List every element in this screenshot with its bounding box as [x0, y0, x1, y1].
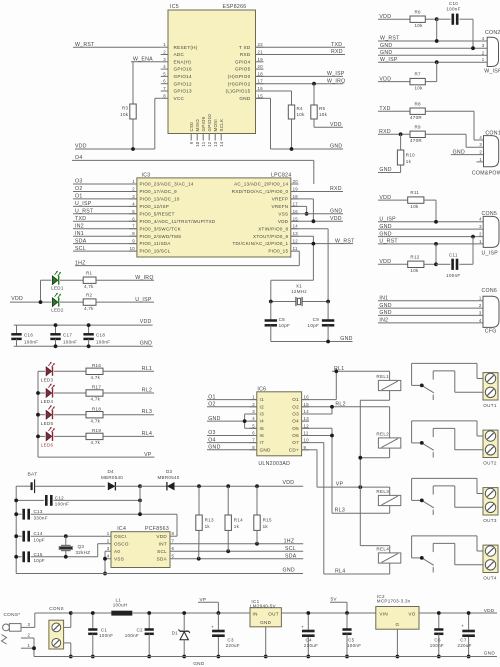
svg-text:R7: R7 [415, 72, 422, 77]
svg-text:GND: GND [380, 43, 392, 49]
svg-text:VDD: VDD [156, 534, 167, 539]
wire 1HZ from IC4 INT [170, 538, 303, 544]
junction CONS top on VP line [69, 611, 73, 615]
svg-text:GPIO12: GPIO12 [174, 81, 193, 86]
junction C1 bottom [91, 655, 95, 659]
svg-text:CONS: CONS [49, 606, 64, 611]
svg-text:100nF: 100nF [99, 633, 113, 638]
svg-text:4: 4 [479, 217, 482, 222]
svg-text:PIO0_17/ADC_9: PIO0_17/ADC_9 [140, 189, 178, 194]
svg-text:Q3: Q3 [78, 544, 85, 549]
svg-text:VDD: VDD [379, 76, 391, 82]
svg-text:O4: O4 [75, 155, 83, 161]
wire W_RST to IC5 pin 1 [73, 46, 161, 48]
svg-text:R2: R2 [86, 292, 93, 297]
svg-text:R6: R6 [415, 9, 422, 14]
svg-text:R18: R18 [92, 406, 101, 411]
svg-text:SCLK: SCLK [219, 119, 224, 132]
svg-text:11: 11 [293, 246, 298, 251]
node GND label bottom right [484, 651, 496, 656]
resistor R10 1k [378, 134, 415, 172]
junction crystal right node [326, 300, 330, 304]
LED LED5 red [41, 405, 55, 426]
svg-text:ADC: ADC [174, 52, 185, 57]
wire CON1 pin 1 stub [477, 161, 484, 163]
svg-text:PIO0_2/SWD/TMS: PIO0_2/SWD/TMS [140, 234, 182, 239]
capacitor C10 100nF [437, 1, 473, 48]
svg-text:VSS: VSS [278, 211, 288, 216]
svg-text:PIO0_5/RESET: PIO0_5/RESET [140, 211, 175, 216]
junction jack pin1 on GND riser [32, 646, 36, 650]
svg-text:R4: R4 [297, 106, 304, 111]
svg-text:+: + [301, 624, 304, 629]
wire REL1 coil top from RL1 [389, 371, 391, 380]
resistor R6 10k [410, 9, 437, 28]
svg-text:I2: I2 [260, 404, 265, 409]
junction XTOUT crossing W_RST [312, 242, 316, 246]
wire IC6 pin 12 tie to RL3 [302, 428, 332, 435]
wire GND to CON6 pin 2 [378, 303, 483, 309]
IC4 left pin labels [114, 534, 129, 562]
svg-text:GND: GND [283, 568, 295, 574]
svg-text:O2: O2 [292, 404, 299, 409]
IC3 left pin numbers and stubs [129, 179, 137, 251]
svg-text:RXD: RXD [330, 186, 342, 192]
svg-text:RL3: RL3 [142, 409, 152, 415]
svg-text:CS0: CS0 [189, 122, 194, 132]
svg-text:15: 15 [304, 402, 310, 407]
svg-text:2: 2 [482, 50, 485, 55]
svg-text:3: 3 [482, 43, 485, 48]
node W_RST label [75, 42, 95, 48]
svg-text:RL3: RL3 [335, 508, 345, 514]
svg-text:ESP8266: ESP8266 [222, 4, 246, 10]
svg-text:2: 2 [479, 232, 482, 237]
svg-text:4,7k: 4,7k [91, 397, 101, 402]
junction C5 bottom [345, 655, 349, 659]
resistor R19 4,7k [54, 428, 154, 445]
regulator IC2 MCP1703-3.3v [376, 594, 497, 657]
svg-text:REL4: REL4 [376, 546, 389, 551]
svg-text:10: 10 [304, 438, 310, 443]
junction RTC supply node [138, 484, 142, 488]
wire GND to CON2 pin 3 [378, 43, 487, 49]
svg-text:4: 4 [107, 554, 110, 559]
svg-text:C15: C15 [34, 552, 43, 557]
svg-text:SDA: SDA [157, 556, 168, 561]
svg-text:MBR0540: MBR0540 [158, 475, 180, 480]
LED LED4 red [41, 384, 55, 405]
inductor L1 100uH [111, 598, 250, 616]
wire GND rail for decoupling caps [14, 340, 153, 346]
svg-text:100uH: 100uH [113, 603, 128, 608]
svg-text:IN1: IN1 [75, 231, 84, 237]
screw terminal OUT2 [483, 430, 498, 466]
svg-text:RL2: RL2 [335, 401, 345, 407]
svg-text:C7: C7 [460, 637, 467, 642]
capacitor C17 100nF [50, 325, 77, 346]
svg-text:2: 2 [479, 303, 482, 308]
svg-text:17: 17 [258, 79, 264, 84]
wire O2 to IC6 pin 2 [207, 402, 257, 408]
junction VDD at LED riser [39, 300, 43, 304]
wire GND to CON1 pin 2 [451, 149, 484, 155]
svg-text:12: 12 [207, 141, 212, 147]
svg-text:220uF: 220uF [304, 643, 318, 648]
svg-text:VREFP: VREFP [272, 197, 289, 202]
LED LED3 red [41, 362, 55, 383]
svg-text:PIO0_10/SCL: PIO0_10/SCL [140, 249, 171, 254]
diode D1 suppressor [172, 613, 190, 657]
svg-text:(H)GPIO0: (H)GPIO0 [228, 74, 251, 79]
svg-text:XTOUT/PIO0_9: XTOUT/PIO0_9 [253, 234, 288, 239]
svg-text:6: 6 [252, 431, 255, 436]
svg-text:IN2: IN2 [379, 318, 388, 324]
junction R4 bottom on GND [290, 147, 294, 151]
wire VP net from IC6 pin 9 CD+ [302, 450, 390, 488]
capacitor C4 220uF electrolytic [301, 613, 318, 657]
svg-text:C5: C5 [348, 637, 355, 642]
junction C15 left on GND rail [14, 555, 18, 559]
svg-text:I3: I3 [260, 412, 265, 417]
svg-text:12: 12 [304, 423, 310, 428]
node CONS* label and DC jack [2, 612, 35, 648]
diode D3 MBR0540 [140, 469, 199, 491]
svg-text:MBR0540: MBR0540 [101, 475, 123, 480]
IC6 right pin labels [289, 397, 299, 452]
junction VREFN on VSS line [305, 212, 309, 216]
svg-text:OUT4: OUT4 [483, 576, 497, 581]
svg-text:100nF: 100nF [446, 273, 460, 278]
svg-text:7: 7 [172, 539, 175, 544]
svg-text:1: 1 [479, 157, 482, 162]
svg-text:U_ISP: U_ISP [482, 251, 499, 257]
svg-text:10pF: 10pF [34, 537, 45, 542]
svg-text:VDD: VDD [140, 319, 152, 325]
svg-text:IN2: IN2 [75, 223, 84, 229]
svg-text:3: 3 [132, 194, 135, 199]
junction RXD at R10 [399, 132, 403, 136]
wire VP branch to REL4 coil top [360, 487, 389, 553]
svg-text:O7: O7 [292, 440, 299, 445]
svg-text:19: 19 [258, 57, 264, 62]
svg-text:13: 13 [304, 416, 310, 421]
wire GND to CON6 pin 3 [378, 310, 483, 316]
junction C10 on GND [471, 46, 475, 50]
crystal X1 12MHz [271, 283, 328, 306]
wire XTIN from IC3 pin 14 to crystal [291, 229, 328, 302]
svg-text:2: 2 [28, 633, 31, 638]
junction C6 bottom [437, 655, 441, 659]
driver IC6 ULN2003AD body [257, 386, 302, 467]
svg-text:PIO0_23/ADC_3/AC_14: PIO0_23/ADC_3/AC_14 [140, 182, 194, 187]
junction R6 on W_RST [435, 39, 439, 43]
svg-text:VDD: VDD [75, 144, 87, 150]
svg-text:PIO0_13/ADC_10: PIO0_13/ADC_10 [140, 197, 180, 202]
resistor R8 470R [410, 101, 484, 140]
svg-text:1: 1 [252, 395, 255, 400]
svg-text:1: 1 [479, 239, 482, 244]
svg-text:C16: C16 [24, 333, 33, 338]
wire CONS top screw to VP line [64, 613, 71, 627]
svg-text:VDD: VDD [278, 219, 289, 224]
wire W_RST from IC3 pin 12 [291, 238, 355, 244]
wire GND from IC5 pin 15 [256, 98, 344, 149]
svg-text:14: 14 [293, 224, 299, 229]
svg-text:A0: A0 [114, 549, 120, 554]
IC4 pin numbers [107, 531, 175, 559]
svg-text:VDD: VDD [330, 216, 342, 222]
junction C18 top [87, 323, 91, 327]
svg-text:MOSI: MOSI [213, 119, 218, 131]
svg-text:OUT1: OUT1 [483, 403, 497, 408]
junction W_IRQ at R5 [312, 82, 316, 86]
junction CONS bottom on GND [69, 655, 73, 659]
wire VDD rail for decoupling caps [14, 319, 153, 325]
junction pin12 on RL3 [330, 434, 334, 438]
svg-text:VO: VO [408, 612, 415, 617]
svg-text:GND: GND [330, 144, 342, 150]
svg-text:7: 7 [163, 86, 166, 91]
svg-text:VDD: VDD [283, 480, 295, 486]
svg-text:R13: R13 [205, 517, 214, 522]
wire GND to CON2 pin 2 [378, 50, 487, 56]
svg-text:10k: 10k [319, 112, 328, 117]
svg-text:6: 6 [132, 216, 135, 221]
svg-text:C13: C13 [34, 509, 43, 514]
junction pin14 on RL2 [330, 405, 334, 409]
wire battery GND left rail [15, 486, 17, 573]
node W_ENA label [133, 57, 153, 63]
wire crystal GND line [271, 336, 353, 342]
svg-text:VIN: VIN [379, 612, 388, 617]
svg-text:O1: O1 [208, 394, 216, 400]
svg-text:3: 3 [163, 57, 166, 62]
svg-text:18: 18 [258, 71, 264, 76]
resistor R18 4,7k [54, 406, 154, 423]
svg-text:18: 18 [293, 194, 299, 199]
svg-text:VP: VP [200, 597, 207, 602]
svg-text:OUT2: OUT2 [483, 461, 497, 466]
svg-text:RL4: RL4 [335, 569, 345, 575]
svg-text:1k: 1k [406, 159, 412, 164]
svg-text:LED3: LED3 [41, 378, 54, 383]
svg-text:VDD: VDD [379, 259, 391, 265]
relay coil REL3 [376, 489, 400, 506]
wire VDD to R6 [378, 14, 410, 20]
svg-text:GND: GND [380, 50, 392, 56]
svg-text:AC_13/ADC_2/PIO0_14: AC_13/ADC_2/PIO0_14 [234, 182, 288, 187]
svg-text:IN1: IN1 [379, 296, 388, 302]
svg-text:O6: O6 [292, 433, 299, 438]
svg-text:TXD: TXD [75, 216, 86, 222]
svg-text:2: 2 [132, 187, 135, 192]
svg-text:CD+: CD+ [289, 447, 299, 452]
svg-text:11: 11 [201, 141, 206, 146]
wire RL4 net from IC6 pin 10 to REL4 coil [302, 443, 390, 575]
connector CON1 COM&POW [472, 130, 500, 176]
svg-text:VCC: VCC [174, 96, 185, 101]
node VDD label below R5 [330, 122, 342, 128]
svg-text:I1: I1 [260, 397, 265, 402]
screw terminal OUT1 [483, 373, 498, 409]
svg-text:GND: GND [379, 303, 391, 309]
svg-text:LM2940-5V: LM2940-5V [250, 604, 276, 609]
svg-text:W_ENA: W_ENA [133, 57, 153, 63]
svg-text:BAT: BAT [28, 472, 38, 478]
svg-text:REL3: REL3 [376, 489, 389, 494]
svg-text:R8: R8 [415, 101, 422, 106]
svg-text:PIO0_12/ISP: PIO0_12/ISP [140, 204, 170, 209]
svg-text:6: 6 [172, 546, 175, 551]
svg-text:OSCI: OSCI [114, 534, 126, 539]
svg-text:LED6: LED6 [41, 443, 54, 448]
junction D1 bottom [182, 655, 186, 659]
svg-text:R9: R9 [415, 124, 422, 129]
wire U_RST to CON5 pin 1 [378, 239, 483, 245]
resistor R2 4,7k [60, 292, 154, 311]
svg-text:VREFN: VREFN [272, 204, 289, 209]
resistor R14 1k [225, 486, 243, 551]
svg-text:PIO0_3/SWC/TCK: PIO0_3/SWC/TCK [140, 226, 181, 231]
svg-text:GND: GND [193, 661, 205, 666]
resistor R3 10k [120, 62, 136, 149]
svg-text:R17: R17 [92, 385, 101, 390]
resistor R17 4,7k [54, 385, 154, 402]
svg-text:RXD: RXD [331, 49, 343, 55]
svg-text:100nF: 100nF [446, 7, 460, 12]
resistor R9 470R [410, 124, 484, 147]
svg-text:4: 4 [479, 135, 482, 140]
wire U_ISP to CON5 pin 4 [378, 217, 483, 223]
svg-text:VDD: VDD [379, 14, 391, 20]
svg-text:4: 4 [163, 64, 166, 69]
junction 5V-C5 node [345, 611, 349, 615]
junction R15 top [255, 484, 259, 488]
wire VDD to R11 [378, 195, 408, 201]
svg-text:R12: R12 [410, 254, 419, 259]
wire VDD feed for LEDs [10, 280, 51, 302]
junction C7 top [467, 611, 471, 615]
svg-text:RESET(H): RESET(H) [174, 45, 198, 50]
node U_ISP label at R2 [135, 297, 152, 303]
svg-text:GPIO14: GPIO14 [174, 74, 193, 79]
capacitor C13 330nF [16, 509, 177, 521]
svg-text:REL2: REL2 [376, 431, 389, 436]
wire IC6 pin 14 tie to RL2 [302, 407, 332, 414]
junction REL2 contact pivot [420, 441, 424, 445]
IC5 right pin numbers and stubs [256, 42, 264, 98]
svg-text:GND: GND [239, 96, 250, 101]
svg-text:470R: 470R [410, 115, 422, 120]
svg-text:W_RST: W_RST [335, 238, 355, 244]
IC5 left pin numbers and stubs [161, 42, 168, 98]
junction LED6 on rail [36, 435, 40, 439]
wire VDD rail to RTC diode [199, 480, 303, 486]
screw terminal OUT4 [483, 545, 498, 581]
relay coil REL2 [376, 431, 400, 448]
svg-text:CON5: CON5 [482, 211, 498, 217]
svg-text:1: 1 [132, 179, 135, 184]
svg-text:8: 8 [163, 93, 166, 98]
svg-text:U_RST: U_RST [379, 239, 398, 245]
svg-text:O2: O2 [75, 186, 83, 192]
svg-text:TXD: TXD [331, 42, 342, 48]
node GND label right of IC5 [330, 144, 342, 150]
svg-text:1: 1 [28, 643, 31, 648]
svg-text:D3: D3 [166, 469, 173, 474]
svg-text:R15: R15 [263, 517, 272, 522]
svg-text:IC5: IC5 [170, 4, 179, 10]
svg-text:X1: X1 [296, 283, 302, 288]
LED LED1 green [51, 271, 64, 291]
svg-text:CON1: CON1 [485, 130, 500, 136]
svg-text:C6: C6 [434, 637, 441, 642]
svg-text:8: 8 [252, 445, 255, 450]
svg-text:5: 5 [252, 423, 255, 428]
resistor R13 1k [196, 486, 214, 559]
svg-text:10k: 10k [415, 23, 424, 28]
node GND label bottom left [193, 661, 205, 666]
svg-text:16: 16 [293, 209, 299, 214]
svg-text:1k: 1k [234, 524, 240, 529]
wire RTC VDD to IC4 pin 8 [170, 514, 177, 536]
wire IC6 pin 13 stub [302, 420, 309, 422]
svg-text:4,7k: 4,7k [91, 375, 101, 380]
wire R6 pullup to W_RST line [436, 19, 438, 41]
wire RXD to R9 [378, 129, 410, 135]
relay contact REL3 [412, 478, 483, 515]
svg-text:32kHZ: 32kHZ [76, 550, 91, 555]
svg-text:9: 9 [189, 141, 194, 144]
svg-text:R11: R11 [410, 190, 419, 195]
svg-text:8: 8 [172, 531, 175, 536]
wire CONS bottom screw to GND [64, 643, 71, 657]
svg-text:10k: 10k [120, 112, 129, 117]
resistor R12 10k [408, 244, 436, 273]
svg-text:GPIO4: GPIO4 [235, 59, 251, 64]
svg-text:IN: IN [253, 611, 258, 616]
svg-text:CFG: CFG [485, 329, 497, 335]
svg-text:INT: INT [159, 541, 167, 546]
svg-text:I6: I6 [260, 433, 265, 438]
wire LED anode rail to VP [38, 371, 154, 457]
svg-text:LED4: LED4 [41, 399, 54, 404]
svg-text:R16: R16 [92, 363, 101, 368]
junction D1 top [182, 611, 186, 615]
svg-text:LED2: LED2 [51, 307, 64, 312]
wire RL3 net from IC6 pin 11 to REL3 coil [302, 436, 390, 514]
relay contact REL2 [412, 421, 483, 458]
capacitor C6 100nF [430, 613, 444, 657]
junction REL2 coil on VP rail [358, 456, 362, 460]
svg-text:W_ISP: W_ISP [380, 57, 398, 63]
svg-text:XTIN/PIO0_8: XTIN/PIO0_8 [258, 226, 288, 231]
capacitor C8 10pF [265, 302, 290, 342]
svg-text:4: 4 [132, 201, 135, 206]
IC3 right pin labels [232, 182, 289, 254]
svg-text:D1: D1 [172, 631, 179, 636]
relay contact REL4 [412, 536, 483, 573]
junction C2 bottom [147, 655, 151, 659]
svg-text:12: 12 [293, 239, 299, 244]
capacitor C18 100nF [83, 325, 110, 346]
node VP label at LED rail [144, 452, 152, 458]
svg-text:100nF: 100nF [24, 339, 38, 344]
capacitor C1 100nF [88, 613, 113, 657]
svg-text:SCL: SCL [157, 549, 167, 554]
svg-text:3: 3 [479, 310, 482, 315]
